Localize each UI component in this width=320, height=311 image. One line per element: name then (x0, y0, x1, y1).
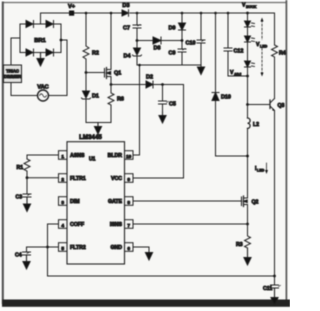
node ISNS junction (246, 223, 249, 226)
pin 4 COFF (59, 220, 85, 229)
pin 1 ASNS (59, 151, 85, 160)
svg-text:C12: C12 (234, 49, 244, 55)
capacitor C10 (186, 40, 205, 47)
IC U1 LM3445 (67, 134, 125, 264)
ground below C3 (23, 197, 30, 212)
wire C9 to bottom bar (181, 52, 183, 65)
source VAC (37, 85, 48, 102)
node LED bottom junction (246, 103, 249, 106)
wire VCC column (133, 85, 184, 179)
svg-text:ASNS: ASNS (70, 153, 85, 159)
annotation I_LED arrow (255, 163, 268, 174)
wire GATE to Q2 (133, 200, 242, 202)
capacitor C4 (15, 247, 31, 259)
svg-text:D3: D3 (122, 3, 129, 9)
node V_BUCK (242, 3, 257, 10)
node A junction (85, 71, 88, 74)
svg-text:Q2: Q2 (252, 200, 259, 206)
svg-text:U1: U1 (89, 157, 96, 163)
ground below C5 (159, 112, 166, 123)
svg-text:D2: D2 (146, 75, 153, 81)
wire bottom rail (48, 247, 275, 276)
diode D3 (series in rail) (122, 3, 130, 16)
resistor R4 (274, 13, 276, 45)
svg-text:COFF: COFF (70, 222, 84, 228)
svg-text:C10: C10 (186, 41, 196, 47)
pin 10 BLDR (108, 151, 133, 160)
transistor Q3 (270, 99, 285, 112)
node B junction (110, 83, 113, 86)
capacitor C9 (169, 49, 186, 57)
bridge rectifier BR1 (20, 21, 61, 57)
wire node to FLTR1 pin (27, 177, 59, 179)
svg-text:3: 3 (61, 200, 64, 206)
svg-text:R1: R1 (17, 165, 24, 171)
capacitor C11 (263, 276, 281, 292)
ground below C11 (271, 288, 278, 305)
wire BLDR riser (133, 65, 140, 155)
svg-text:C5: C5 (169, 102, 176, 108)
node V+ (68, 4, 76, 16)
pin 5 FLTR2 (59, 243, 86, 252)
svg-text:1: 1 (61, 154, 64, 160)
ground below R3 (244, 248, 251, 265)
wire node A to Q1 gate (86, 72, 105, 74)
svg-text:FLTR2: FLTR2 (70, 245, 86, 251)
wire R4 to Q3 collector (274, 57, 276, 99)
wire dimmer top to bridge left (11, 38, 20, 65)
zener D1 (82, 91, 99, 100)
wire Q3 emitter down right rail (274, 111, 276, 276)
wire node A to D1 (85, 73, 87, 92)
svg-text:ISNS: ISNS (110, 222, 123, 228)
svg-text:5: 5 (61, 246, 64, 252)
wire COFF to junction (48, 224, 59, 247)
pin 3 DIM (59, 197, 80, 206)
svg-text:10: 10 (126, 154, 132, 160)
svg-text:4: 4 (61, 223, 64, 229)
inductor L2 (247, 105, 249, 119)
svg-text:C7: C7 (123, 26, 130, 32)
wire rail to C10 (200, 13, 202, 40)
valley fill column C: C10 (200, 12, 203, 15)
wire C7 to D4 (136, 28, 138, 48)
pin 6 GND (110, 243, 133, 252)
svg-text:R3: R3 (236, 242, 243, 248)
svg-text:Q1: Q1 (114, 71, 121, 77)
svg-text:D4: D4 (124, 54, 131, 60)
diode D2 (146, 75, 153, 89)
svg-text:C9: C9 (169, 51, 176, 57)
valley fill column B: D9 and C9 (181, 12, 184, 15)
svg-text:BLDR: BLDR (108, 153, 123, 159)
wire GND pin to ground (133, 247, 153, 260)
svg-text:C11: C11 (263, 286, 272, 292)
svg-text:6: 6 (127, 246, 130, 252)
resistor R3 (236, 224, 251, 248)
wire rail to C7 (136, 13, 138, 25)
annotation V_LED dashed arrow (255, 18, 268, 77)
svg-text:DIM: DIM (70, 199, 80, 205)
ground below valley fill (197, 65, 204, 75)
pin 7 ISNS (110, 220, 133, 229)
svg-text:9: 9 (127, 177, 130, 183)
svg-text:BR1: BR1 (34, 38, 46, 44)
svg-text:7: 7 (127, 223, 130, 229)
wire L2 to switch node (247, 129, 249, 197)
wire D1 to ground bar (85, 99, 87, 123)
diode D8 (137, 37, 182, 52)
svg-text:L2: L2 (253, 122, 259, 128)
resistor R1 (17, 159, 31, 172)
svg-text:VAC: VAC (37, 85, 48, 91)
wire junction to C4 (27, 246, 48, 248)
LED string (247, 13, 249, 105)
svg-text:C3: C3 (16, 195, 23, 201)
wire V+ rail to R2 column (85, 13, 87, 46)
wire dimmer bottom to VAC (11, 83, 38, 96)
svg-text:8: 8 (127, 200, 130, 206)
wire bridge right edge to VAC (49, 40, 68, 96)
wire C10 to bottom bar (200, 43, 202, 65)
svg-text:2: 2 (61, 177, 64, 183)
ground below bridge (37, 53, 44, 67)
resistor R2 (83, 46, 99, 61)
svg-text:FLTR1: FLTR1 (70, 176, 86, 182)
diode D9 (169, 23, 186, 32)
wire node B to D2 (111, 84, 146, 86)
svg-text:DIMMER: DIMMER (4, 74, 21, 79)
svg-text:R6: R6 (117, 97, 124, 103)
svg-text:D8: D8 (154, 46, 161, 52)
frame drawn but decorative (3, 2, 286, 4)
pin 9 VCC (111, 174, 133, 183)
wire ISNS to sense node (133, 223, 248, 225)
wire rail to D9 (181, 13, 183, 23)
svg-text:D9: D9 (169, 26, 176, 32)
pin 8 GATE (108, 197, 133, 206)
wire Q2 source to ISNS node (247, 207, 249, 224)
wire D10 to switch node (216, 101, 248, 157)
wire R1 to FLTR1 node (26, 171, 28, 178)
svg-text:Q3: Q3 (278, 103, 285, 109)
ground bar and arrow below D1/R6 (86, 123, 111, 135)
ground below C4 (23, 255, 30, 269)
svg-text:ADJ: ADJ (234, 73, 241, 77)
valley fill column A: C7 and D4 (136, 12, 139, 15)
svg-text:BUCK: BUCK (246, 5, 257, 9)
transistor Q1 (105, 63, 122, 82)
diode D10 (214, 12, 217, 15)
svg-text:R4: R4 (279, 51, 286, 57)
wire bridge top-center to V+ (41, 13, 72, 24)
svg-text:D1: D1 (92, 94, 99, 100)
capacitor C3 (16, 178, 32, 201)
zener D4 (124, 48, 142, 60)
svg-text:LED: LED (257, 169, 265, 173)
wire C12 to V_ADJ node (228, 51, 248, 76)
resistor R6 (108, 85, 124, 106)
node C junction (C5 tap) (161, 83, 164, 86)
svg-text:V+: V+ (68, 4, 76, 10)
wire D9 to C9 (181, 30, 183, 49)
svg-text:TRIAC: TRIAC (6, 69, 19, 74)
wire LED bottom to Q3 base (248, 104, 271, 106)
wire FLTR2 to junction (48, 246, 59, 248)
wire D2 to VCC column (153, 84, 184, 86)
wire D4 to bottom bar (136, 56, 138, 65)
transistor Q2 (242, 196, 259, 207)
wire R2 to node A (85, 59, 87, 73)
wire top rail (72, 12, 275, 14)
svg-text:VCC: VCC (111, 176, 122, 182)
capacitor C5 (159, 85, 176, 113)
wire R6 to ground bar (110, 105, 112, 123)
wire valley-fill bottom bar (137, 64, 201, 66)
svg-text:R2: R2 (92, 51, 99, 57)
node V_ADJ (230, 70, 241, 77)
svg-text:GND: GND (110, 245, 122, 251)
wire Q1 source to node B (110, 82, 112, 85)
svg-text:D10: D10 (221, 95, 231, 101)
triac dimmer box (4, 65, 22, 83)
pin 2 FLTR1 (59, 174, 86, 183)
capacitor C7 (123, 25, 141, 32)
svg-text:GATE: GATE (108, 199, 123, 205)
svg-text:LED: LED (260, 45, 268, 49)
wire ASNS to R1 (27, 155, 59, 159)
svg-text:LM3445: LM3445 (79, 134, 102, 141)
svg-text:C4: C4 (15, 253, 22, 259)
capacitor C12 (227, 12, 230, 15)
wire Q1 drain to top rail (110, 13, 112, 63)
